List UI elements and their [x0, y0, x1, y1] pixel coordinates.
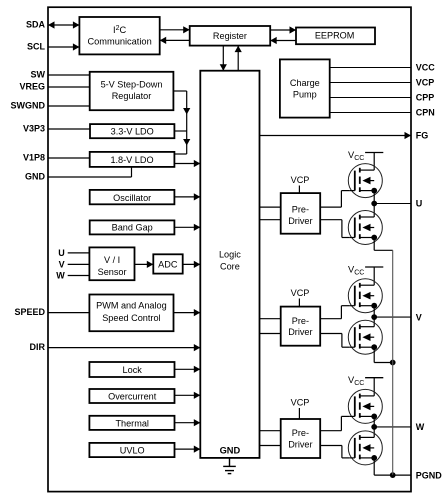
svg-text:Band Gap: Band Gap: [112, 223, 153, 233]
svg-text:Register: Register: [213, 31, 247, 41]
svg-text:SDA: SDA: [26, 20, 46, 30]
svg-text:UVLO: UVLO: [120, 445, 145, 455]
svg-text:Thermal: Thermal: [115, 418, 148, 428]
svg-text:I2C: I2C: [113, 25, 127, 35]
svg-text:Charge: Charge: [290, 78, 320, 88]
svg-text:EEPROM: EEPROM: [315, 31, 355, 41]
svg-text:Core: Core: [220, 262, 240, 272]
svg-text:CPP: CPP: [416, 93, 435, 103]
svg-text:PGND: PGND: [416, 470, 443, 480]
svg-text:VCP: VCP: [416, 78, 435, 88]
svg-text:V: V: [59, 260, 65, 270]
svg-text:GND: GND: [25, 172, 46, 182]
svg-text:Oscillator: Oscillator: [113, 193, 151, 203]
svg-text:Lock: Lock: [123, 365, 143, 375]
svg-text:VCC: VCC: [416, 63, 436, 73]
svg-text:SPEED: SPEED: [14, 307, 45, 317]
svg-text:Overcurrent: Overcurrent: [108, 392, 157, 402]
svg-text:Driver: Driver: [288, 439, 312, 449]
svg-text:Pre-: Pre-: [292, 204, 309, 214]
svg-text:Speed Control: Speed Control: [102, 313, 160, 323]
svg-text:ADC: ADC: [158, 260, 178, 270]
svg-text:V3P3: V3P3: [23, 124, 45, 134]
svg-text:SCL: SCL: [27, 42, 46, 52]
svg-text:Communication: Communication: [87, 36, 151, 46]
svg-text:Pre-: Pre-: [292, 316, 309, 326]
svg-text:U: U: [416, 199, 423, 209]
svg-text:Sensor: Sensor: [98, 267, 127, 277]
svg-text:FG: FG: [416, 131, 429, 141]
svg-text:5-V Step-Down: 5-V Step-Down: [101, 79, 163, 89]
svg-text:Pre-: Pre-: [292, 428, 309, 438]
svg-text:V1P8: V1P8: [23, 153, 45, 163]
svg-text:CPN: CPN: [416, 108, 435, 118]
svg-text:Logic: Logic: [219, 250, 241, 260]
svg-text:VCP: VCP: [291, 175, 310, 185]
svg-text:VCP: VCP: [291, 288, 310, 298]
svg-text:W: W: [56, 271, 65, 281]
svg-text:W: W: [416, 422, 425, 432]
svg-text:Pump: Pump: [293, 90, 317, 100]
svg-text:SW: SW: [31, 70, 46, 80]
svg-text:SWGND: SWGND: [11, 101, 46, 111]
svg-text:Driver: Driver: [288, 216, 312, 226]
svg-text:GND: GND: [220, 445, 241, 455]
svg-text:V: V: [416, 312, 422, 322]
svg-text:PWM and Analog: PWM and Analog: [96, 301, 167, 311]
svg-text:VCP: VCP: [291, 398, 310, 408]
svg-text:VREG: VREG: [19, 82, 45, 92]
svg-text:DIR: DIR: [30, 342, 46, 352]
svg-text:V / I: V / I: [104, 255, 120, 265]
svg-text:Driver: Driver: [288, 327, 312, 337]
svg-text:1.8-V LDO: 1.8-V LDO: [110, 155, 153, 165]
svg-text:U: U: [58, 248, 65, 258]
svg-text:3.3-V LDO: 3.3-V LDO: [111, 126, 154, 136]
svg-text:Regulator: Regulator: [112, 91, 152, 101]
